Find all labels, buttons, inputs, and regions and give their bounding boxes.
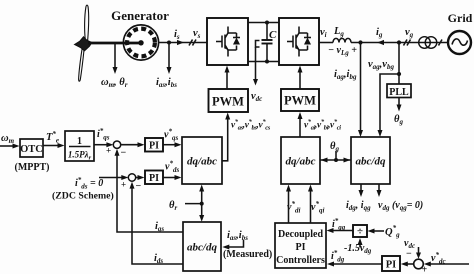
wire: stator current measurement <box>168 43 170 67</box>
wire: i_ag i_bg measurement <box>360 43 362 131</box>
svg-text:PI: PI <box>149 173 159 184</box>
svg-text:Controllers: Controllers <box>276 255 325 266</box>
arrow i_g <box>377 40 384 45</box>
dq/abc block (machine side) <box>182 137 222 184</box>
wire: speed/position measurement <box>114 44 116 67</box>
svg-text:abc/dq: abc/dq <box>356 156 386 168</box>
PLL block <box>387 84 411 98</box>
wire: i*_ds to sum2 <box>99 177 123 179</box>
wire: v_dc into sum3 <box>418 247 420 253</box>
wire: i*_qs to sum1 <box>94 144 108 146</box>
wire: DC link top rail <box>248 22 279 24</box>
wire: theta_g distribution <box>320 159 351 161</box>
wire: Q*_g input <box>374 230 384 232</box>
svg-text:PWM: PWM <box>284 94 316 108</box>
wire: vdc measurement <box>255 47 257 79</box>
svg-text:+: + <box>121 180 126 190</box>
PI block (dc-link) <box>382 256 400 271</box>
converter U1 (machine-side) <box>207 18 248 65</box>
svg-text:÷: ÷ <box>357 226 363 238</box>
wire: i_dg i_qg output <box>360 184 362 191</box>
wire: dq/abc2 output to PWM2 <box>299 119 301 138</box>
svg-text:dq/abc: dq/abc <box>286 156 316 168</box>
three-phase slash mark <box>189 40 196 46</box>
svg-text:Decoupled: Decoupled <box>278 229 323 240</box>
wire: v*_di to dq/abc2 <box>288 191 290 224</box>
summing junction S1 <box>113 141 120 148</box>
wire: T*_e <box>43 145 59 147</box>
turbine hub <box>75 37 92 51</box>
svg-text:(Measured): (Measured) <box>223 249 272 260</box>
wire: w_m into OTC <box>0 145 14 147</box>
wire: generator to converter 1 <box>159 42 208 44</box>
svg-text:C: C <box>269 29 277 41</box>
node: grid voltage tap <box>397 40 401 44</box>
svg-text:+: + <box>106 146 111 156</box>
converter U2 (grid-side) <box>279 18 319 65</box>
capacitor C <box>262 23 273 62</box>
wire: PWM2 to converter2 <box>299 72 301 89</box>
wire: i*_dg <box>333 263 382 265</box>
wire: converter2 to grid <box>319 42 333 44</box>
wire: dq/abc1 output to PWM1 <box>222 119 228 161</box>
abc/dq block (measured) <box>183 222 221 271</box>
abc/dq block (grid side) <box>351 137 390 184</box>
shaft wire <box>88 42 141 45</box>
wire: PLL theta_g out <box>398 98 400 106</box>
svg-text:PI: PI <box>386 260 397 271</box>
svg-text:−: − <box>121 148 127 159</box>
node: grid current tap <box>358 40 362 44</box>
svg-text:(MPPT): (MPPT) <box>15 162 50 173</box>
wire: v*_dc input <box>430 263 469 265</box>
wind turbine blades <box>79 5 89 81</box>
svg-text:ωm, θr: ωm, θr <box>101 77 128 89</box>
IGBT Q1 with diode <box>216 27 240 57</box>
PI block (q-axis) <box>145 138 163 152</box>
wire: v*_ds to dq/abc1 <box>163 177 176 179</box>
node: cap top <box>265 21 269 25</box>
wire: sum3 to PI <box>407 263 414 265</box>
PWM block (grid side) <box>281 89 319 111</box>
svg-text:(ZDC Scheme): (ZDC Scheme) <box>52 191 114 202</box>
svg-text:PI: PI <box>296 242 306 253</box>
wire: PWM1 to converter1 <box>226 72 228 89</box>
wire: i*_qg <box>333 230 353 232</box>
PWM block (machine side) <box>209 89 249 112</box>
node: pll tap <box>397 72 401 76</box>
svg-text:Grid: Grid <box>448 11 473 25</box>
IGBT Q2 with diode <box>287 27 311 57</box>
inductor L_g <box>333 38 351 42</box>
vdc probe bracket <box>256 41 260 48</box>
wire: inductor to grid <box>351 42 448 44</box>
wire: sum2 to PI2 <box>136 177 139 179</box>
three-phase slash mark <box>404 40 411 46</box>
dq/abc block (grid side) <box>281 137 320 184</box>
summing junction S2 <box>128 174 135 181</box>
wire: i_qs feedback <box>117 155 183 232</box>
svg-text:−: − <box>136 181 142 192</box>
svg-text:Generator: Generator <box>111 8 169 23</box>
OTC block <box>20 139 43 157</box>
wire: i_ds feedback <box>132 188 183 264</box>
svg-text:PI: PI <box>149 141 159 152</box>
svg-text:v*as,v*bs,v*cs: v*as,v*bs,v*cs <box>231 119 271 132</box>
gain block 1/1.5P&#955; <box>65 131 94 161</box>
wire: v_ag v_bg measurement <box>398 43 400 85</box>
wire: -1.5v_dg input <box>359 244 361 248</box>
transformer T1 <box>419 37 431 49</box>
PI block (d-axis) <box>145 171 163 185</box>
node: cap bottom <box>265 60 269 64</box>
wire: sum1 to PI1 <box>121 144 139 146</box>
wire: DC link bottom rail <box>248 61 279 63</box>
svg-text:+: + <box>422 265 428 275</box>
generator G <box>123 25 158 60</box>
node: theta_g stub <box>335 151 337 160</box>
svg-text:PWM: PWM <box>212 95 244 109</box>
wire: v*_qs to dq/abc1 <box>163 144 176 146</box>
arrow i_s <box>177 40 184 45</box>
svg-text:−: − <box>406 249 412 260</box>
summing junction S3 <box>414 259 424 269</box>
wire: v_dg output <box>378 184 380 191</box>
wire: theta_r distribution <box>201 191 203 217</box>
divider block <box>353 225 367 237</box>
three-phase slash mark <box>439 40 443 46</box>
wire: v*_qi to dq/abc2 <box>310 191 312 224</box>
svg-text:dq/abc: dq/abc <box>187 156 217 168</box>
wire: i_as i_bs measured input <box>229 240 244 247</box>
svg-text:1: 1 <box>77 136 82 147</box>
svg-text:OTC: OTC <box>20 144 43 155</box>
svg-text:PLL: PLL <box>389 87 409 98</box>
node: stator current tap <box>167 41 171 45</box>
grid source <box>448 31 471 54</box>
Decoupled PI Controllers block <box>275 223 326 268</box>
svg-text:abc/dq: abc/dq <box>187 242 217 254</box>
wire: v_ag branch to abc/dq <box>380 74 399 131</box>
